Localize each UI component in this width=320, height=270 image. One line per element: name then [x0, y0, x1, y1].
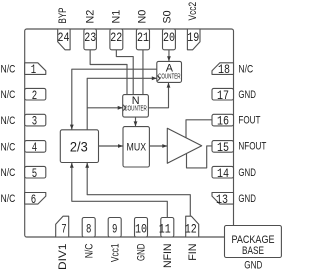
- svg-text:1: 1: [31, 62, 36, 77]
- wire pin11 NFIN to 2/3 bottom: [72, 163, 168, 218]
- svg-text:8: 8: [86, 222, 91, 237]
- wire pin23 to N counter top: [90, 50, 127, 95]
- arrow into A counter bottom: [167, 83, 171, 88]
- output buffer triangle U1: [167, 128, 201, 163]
- wire pin21 to N counter top: [142, 50, 144, 95]
- chip body outline: [25, 29, 234, 237]
- svg-text:17: 17: [217, 88, 229, 103]
- svg-text:13: 13: [216, 192, 228, 207]
- svg-text:COUNTER: COUNTER: [124, 104, 147, 113]
- svg-text:GND: GND: [238, 89, 256, 101]
- N counter block: [123, 95, 149, 118]
- svg-text:N/C: N/C: [1, 64, 16, 76]
- pin 11 (NFIN): [161, 218, 174, 238]
- svg-text:N2: N2: [84, 10, 96, 24]
- pin 16 (FOUT): [212, 114, 234, 126]
- svg-text:GND: GND: [244, 260, 262, 270]
- wire branch to N counter clock input: [87, 107, 123, 109]
- arrow into 2/3 bottom left: [70, 163, 74, 168]
- svg-text:MUX: MUX: [127, 142, 147, 154]
- arrow into A counter clock: [152, 76, 157, 80]
- svg-text:BYP: BYP: [57, 8, 69, 24]
- pin 2 (N/C): [25, 88, 46, 100]
- pin 15 (NFOUT): [212, 141, 234, 153]
- mux block: [123, 127, 149, 167]
- svg-text:19: 19: [187, 30, 199, 45]
- pin 22 (N1): [110, 29, 123, 50]
- pin 10 (GND): [135, 218, 148, 238]
- wire pin22 to N counter top: [116, 50, 133, 95]
- clock chevron N counter: [123, 105, 126, 111]
- svg-text:21: 21: [137, 30, 149, 45]
- svg-text:GND: GND: [238, 167, 256, 179]
- svg-text:FOUT: FOUT: [238, 115, 260, 127]
- svg-text:FIN: FIN: [187, 244, 199, 261]
- svg-text:22: 22: [110, 30, 122, 45]
- svg-text:NFOUT: NFOUT: [238, 141, 266, 153]
- pin 3 (N/C): [25, 114, 46, 126]
- svg-text:6: 6: [31, 192, 36, 207]
- svg-text:18: 18: [218, 62, 230, 77]
- svg-text:DIV1: DIV1: [57, 244, 69, 270]
- arrow into 2/3 bottom right: [85, 163, 89, 168]
- pin 6 (N/C): [25, 193, 46, 205]
- svg-text:9: 9: [112, 222, 117, 237]
- svg-text:N0: N0: [136, 10, 148, 24]
- svg-text:N/C: N/C: [1, 141, 16, 153]
- clock chevron A counter: [157, 75, 160, 81]
- svg-text:12: 12: [185, 222, 197, 237]
- pin 7 (DIV1): [56, 216, 69, 237]
- wire buffer to pin15 NFOUT: [187, 146, 213, 168]
- arrow into MUX top: [134, 121, 138, 126]
- package base box: [225, 226, 282, 258]
- svg-text:N/C: N/C: [83, 244, 95, 259]
- svg-text:GND: GND: [238, 193, 256, 205]
- svg-text:7: 7: [61, 222, 66, 237]
- svg-text:23: 23: [84, 30, 96, 45]
- svg-text:COUNTER: COUNTER: [158, 71, 181, 80]
- pin 8 (N/C): [82, 218, 95, 238]
- wire buffer to pin16 FOUT: [186, 120, 212, 138]
- pin 19 (Vcc2): [187, 29, 200, 50]
- A counter block: [157, 61, 182, 82]
- wire 2/3 top to A counter clock input: [87, 78, 157, 130]
- wire 2/3 output to MUX left: [99, 145, 124, 147]
- svg-text:11: 11: [159, 222, 171, 237]
- arrow into buffer: [162, 144, 167, 148]
- svg-text:24: 24: [58, 30, 70, 45]
- divider block 2/3: [60, 130, 98, 163]
- pin 17 (GND): [212, 88, 234, 100]
- svg-text:Vcc2: Vcc2: [187, 2, 199, 21]
- pin 23 (N2): [84, 29, 97, 50]
- svg-text:3: 3: [32, 114, 37, 129]
- wire MUX right to buffer input: [149, 145, 167, 147]
- svg-text:N/C: N/C: [1, 89, 16, 101]
- pin 5 (N/C): [25, 166, 46, 178]
- arrow into 2/3 top: [70, 125, 74, 130]
- pin 24 (BYP): [58, 29, 70, 50]
- svg-text:5: 5: [32, 166, 37, 181]
- svg-text:N/C: N/C: [238, 64, 253, 76]
- svg-text:2: 2: [32, 88, 37, 103]
- svg-text:PACKAGE: PACKAGE: [232, 234, 275, 246]
- svg-text:N/C: N/C: [1, 167, 16, 179]
- pin 9 (Vcc1): [108, 218, 121, 238]
- svg-text:10: 10: [135, 222, 147, 237]
- svg-text:NFIN: NFIN: [162, 244, 174, 269]
- pin 14 (GND): [212, 166, 234, 178]
- svg-text:N1: N1: [110, 10, 122, 24]
- svg-text:N/C: N/C: [1, 115, 16, 127]
- wire pin20 to A counter top: [168, 50, 170, 62]
- svg-text:15: 15: [217, 140, 229, 155]
- svg-text:4: 4: [32, 140, 37, 155]
- svg-text:16: 16: [217, 114, 229, 129]
- pin 21 (N0): [136, 29, 149, 50]
- wire N counter right to A counter bottom: [148, 82, 168, 107]
- svg-text:GND: GND: [136, 244, 148, 262]
- wire N counter bottom to MUX top: [135, 117, 137, 127]
- svg-text:Vcc1: Vcc1: [109, 244, 121, 263]
- wire A counter left to 2/3 top: [72, 69, 157, 130]
- svg-text:2/3: 2/3: [70, 139, 88, 155]
- pin 1 (N/C): [25, 63, 46, 75]
- svg-text:20: 20: [163, 30, 175, 45]
- pin 12 (FIN): [186, 216, 199, 237]
- pin 13 (GND): [212, 193, 234, 205]
- svg-text:BASE: BASE: [242, 245, 264, 257]
- pin 20 (S0): [163, 29, 176, 50]
- pin 18 (N/C): [212, 63, 234, 75]
- wire pin12 FIN to 2/3 bottom: [87, 163, 190, 217]
- arrow into MUX left: [118, 144, 123, 148]
- svg-text:S0: S0: [162, 11, 174, 24]
- arrow into A counter top: [167, 56, 171, 61]
- pin 4 (N/C): [25, 141, 46, 153]
- svg-text:14: 14: [217, 166, 229, 181]
- arrow into N counter clock: [118, 106, 123, 110]
- svg-text:N/C: N/C: [1, 193, 16, 205]
